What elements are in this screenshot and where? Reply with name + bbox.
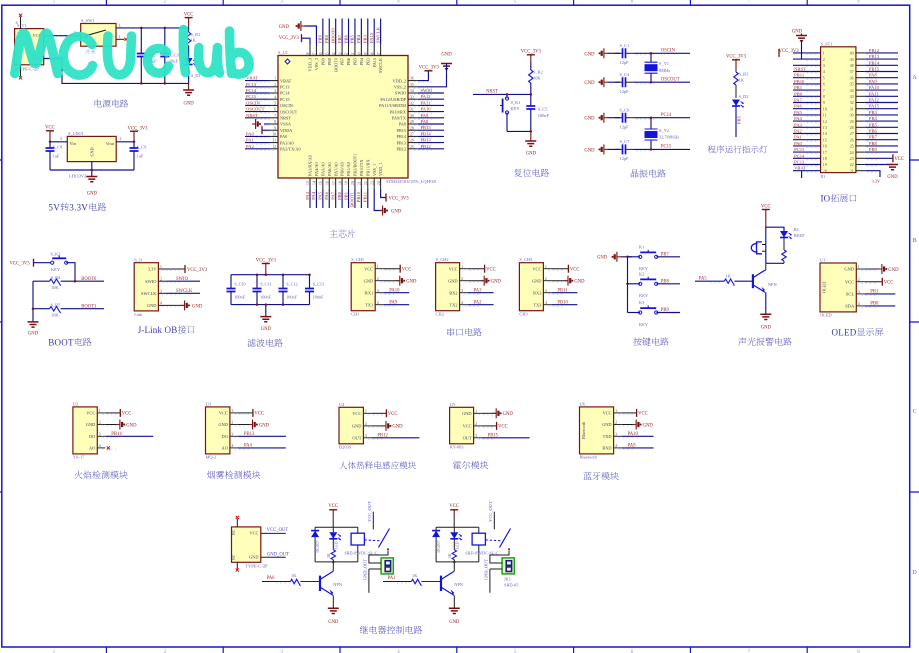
capacitor S_C1 12pF (608, 52, 621, 54)
svg-text:VCC_OUT: VCC_OUT (267, 528, 289, 533)
svg-text:S_SW1: S_SW1 (81, 18, 94, 23)
svg-text:CH1: CH1 (351, 311, 359, 316)
connector S_CH2 (436, 263, 460, 311)
svg-text:C: C (913, 409, 917, 415)
svg-text:38: 38 (370, 52, 374, 56)
base resistor 1K (411, 579, 421, 586)
svg-text:NRST: NRST (794, 67, 806, 72)
svg-text:7: 7 (823, 88, 825, 93)
svg-text:SWIO: SWIO (395, 91, 406, 96)
net label base input (383, 581, 411, 583)
svg-text:GND: GND (584, 117, 595, 122)
capacitor S_C9 1uF (133, 142, 135, 148)
svg-text:PA4/A0: PA4/A0 (314, 162, 319, 176)
svg-text:GND: GND (449, 620, 460, 625)
svg-text:OSCIN: OSCIN (661, 49, 676, 54)
svg-text:1K: 1K (191, 38, 197, 43)
svg-text:PB15: PB15 (869, 67, 880, 72)
ground port at VSSA pin 8 (264, 123, 269, 125)
svg-text:GND: GND (328, 620, 339, 625)
svg-text:PA12/USB/DP: PA12/USB/DP (380, 97, 406, 102)
svg-text:GND: GND (597, 255, 608, 260)
svg-text:VCC: VCC (122, 412, 132, 417)
svg-text:Vin: Vin (70, 141, 77, 146)
svg-text:U2: U2 (73, 401, 78, 406)
resistor S_R2 10K (530, 62, 532, 70)
svg-text:PC13: PC13 (246, 82, 257, 87)
svg-text:PB10: PB10 (356, 191, 361, 202)
svg-text:PA5: PA5 (318, 191, 323, 199)
resistor S_R1 1K (188, 28, 190, 32)
svg-text:32.768KHz: 32.768KHz (659, 135, 679, 140)
svg-text:12: 12 (823, 119, 827, 124)
svg-text:K1: K1 (639, 245, 644, 250)
svg-text:PB1: PB1 (870, 290, 879, 295)
wire left rail (32, 281, 34, 322)
caption key circuit (633, 337, 641, 345)
ground GND (328, 608, 339, 613)
svg-text:PA6: PA6 (794, 104, 802, 109)
svg-text:3: 3 (274, 89, 276, 93)
svg-text:KEY: KEY (51, 267, 61, 272)
svg-text:2: 2 (274, 83, 276, 87)
svg-text:PA11: PA11 (421, 100, 432, 105)
svg-text:30: 30 (410, 114, 414, 118)
svg-text:100nF: 100nF (313, 294, 324, 299)
svg-text:4: 4 (823, 69, 825, 74)
svg-text:PB1: PB1 (794, 85, 803, 90)
svg-text:PA0: PA0 (246, 131, 254, 136)
ground GND (760, 314, 771, 319)
svg-text:GND: GND (448, 278, 458, 283)
ground GND (530, 131, 532, 141)
connector S_CH3 (519, 263, 543, 311)
svg-text:GND: GND (844, 267, 855, 272)
svg-text:GND: GND (574, 280, 585, 285)
svg-text:VCC: VCC (184, 13, 194, 18)
svg-text:1N4007: 1N4007 (437, 540, 441, 553)
svg-text:PB13: PB13 (869, 54, 880, 59)
svg-text:SWIO: SWIO (145, 279, 156, 284)
svg-text:GND_OUT: GND_OUT (363, 559, 368, 580)
svg-text:15: 15 (319, 181, 323, 185)
svg-text:2: 2 (858, 278, 860, 282)
VCC port at header pin 23 (865, 157, 893, 159)
svg-text:NRST: NRST (280, 116, 291, 121)
svg-text:BOOT1: BOOT1 (350, 191, 355, 207)
svg-text:PB15: PB15 (421, 125, 432, 130)
svg-text:A: A (912, 75, 917, 81)
top pins 48-37 (309, 45, 311, 56)
svg-text:25: 25 (410, 145, 414, 149)
svg-text:O: O (824, 194, 831, 204)
svg-text:VCC_3V3: VCC_3V3 (279, 36, 300, 41)
svg-text:VCC: VCC (463, 424, 472, 429)
svg-text:13: 13 (823, 125, 827, 130)
svg-text:RX3: RX3 (533, 290, 542, 295)
svg-text:PA8: PA8 (399, 122, 406, 127)
svg-text:RX1: RX1 (365, 290, 373, 295)
svg-text:PB10: PB10 (557, 301, 568, 306)
border row ticks (0, 160, 919, 492)
svg-text:PA1: PA1 (388, 576, 397, 581)
wire at header pin 20 down (801, 171, 803, 178)
svg-text:PB8: PB8 (869, 141, 878, 146)
svg-text:1K: 1K (739, 77, 745, 82)
svg-text:PA4: PA4 (244, 444, 253, 449)
ground GND (265, 305, 267, 317)
capacitor S_C7 12pF (608, 148, 621, 150)
svg-text:VCC: VCC (86, 411, 95, 416)
svg-text:2: 2 (120, 137, 122, 141)
svg-text:PA15: PA15 (869, 104, 880, 109)
svg-text:31: 31 (410, 108, 414, 112)
svg-text:PB2/BOOT1: PB2/BOOT1 (353, 154, 358, 176)
svg-text:PB4: PB4 (356, 34, 361, 43)
svg-text:S_C12: S_C12 (286, 282, 297, 287)
svg-text:5: 5 (823, 75, 825, 80)
svg-text:3: 3 (99, 433, 101, 437)
svg-text:PB13: PB13 (244, 432, 255, 437)
svg-text:2: 2 (545, 277, 547, 281)
header right pins 40-21 (856, 52, 865, 54)
svg-text:VCC: VCC (449, 504, 459, 509)
svg-text:3: 3 (365, 434, 367, 438)
svg-text:PA7: PA7 (794, 98, 802, 103)
svg-text:PA15: PA15 (369, 32, 374, 43)
svg-text:PA15: PA15 (372, 58, 377, 67)
svg-text:OSCIN: OSCIN (246, 100, 260, 105)
svg-text:14: 14 (313, 181, 317, 185)
crystal S_Y1 8MHz (650, 53, 652, 62)
header left pins 1-20 (793, 52, 821, 54)
svg-text:PA9: PA9 (628, 444, 637, 449)
svg-text:29: 29 (410, 120, 414, 124)
svg-text:PC15: PC15 (661, 145, 672, 150)
svg-text:U3: U3 (206, 401, 212, 406)
svg-text:14: 14 (823, 131, 827, 136)
wire to net PB5 (735, 106, 737, 137)
relay contact blade (364, 539, 381, 542)
svg-text:VCC: VCC (45, 126, 55, 131)
svg-text:GND: GND (503, 412, 514, 417)
relay contact blade (485, 539, 502, 542)
svg-text:26: 26 (410, 139, 414, 143)
svg-text:25: 25 (850, 144, 854, 149)
capacitor S_C4 12pF (608, 81, 621, 83)
caption relay control circuit (360, 626, 368, 634)
svg-text:BOOT0: BOOT0 (333, 58, 338, 72)
svg-text:GND: GND (532, 278, 542, 283)
svg-text:GND: GND (184, 102, 195, 107)
svg-text:PB0: PB0 (794, 91, 803, 96)
svg-text:PB4: PB4 (359, 57, 364, 65)
svg-text:18: 18 (823, 156, 827, 161)
svg-text:D: D (850, 328, 857, 338)
svg-text:PB6: PB6 (346, 57, 351, 65)
svg-text:29: 29 (850, 119, 854, 124)
svg-text:PB6: PB6 (869, 129, 878, 134)
svg-text:PA1: PA1 (794, 135, 802, 140)
LED relay (450, 532, 458, 539)
ground GND (28, 322, 39, 327)
svg-text:PA12: PA12 (869, 98, 880, 103)
svg-text:PA2: PA2 (794, 129, 802, 134)
svg-text:PA9: PA9 (389, 301, 398, 306)
capacitor S_C13 100nF (309, 275, 311, 289)
wire to net PC15 (634, 148, 690, 150)
svg-text:VCC: VCC (486, 268, 496, 273)
svg-text:VCC_3V3: VCC_3V3 (10, 261, 31, 266)
svg-text:27: 27 (850, 131, 854, 136)
svg-text:S_ST1: S_ST1 (821, 41, 833, 46)
svg-text:46: 46 (319, 52, 323, 56)
svg-text:PB11: PB11 (363, 191, 368, 202)
svg-text:11: 11 (823, 113, 827, 118)
svg-text:VCC: VCC (388, 412, 398, 417)
svg-text:22: 22 (850, 162, 854, 167)
capacitor S_C5 100nF (530, 94, 532, 106)
caption serial circuit (447, 328, 454, 336)
svg-text:GND_OUT: GND_OUT (484, 559, 489, 580)
svg-text:10: 10 (823, 106, 827, 111)
svg-text:PA9: PA9 (421, 113, 429, 118)
svg-text:VCC: VCC (254, 412, 264, 417)
caption main chip (330, 230, 338, 238)
svg-text:NRST: NRST (486, 90, 498, 95)
svg-text:BOOT0: BOOT0 (81, 277, 97, 282)
buzzer B1 BEEP (757, 242, 763, 254)
connector S_CH1 (351, 263, 375, 311)
wire collector rail (765, 227, 767, 264)
svg-text:VCC: VCC (249, 531, 258, 536)
svg-text:SWCLK: SWCLK (141, 291, 157, 296)
connector U2 (73, 407, 97, 454)
svg-text:1: 1 (365, 410, 367, 414)
svg-text:PA10: PA10 (869, 85, 880, 90)
svg-text:S_Y1: S_Y1 (659, 61, 669, 66)
svg-text:PB5: PB5 (869, 122, 878, 127)
svg-text:TYPE-C-2P: TYPE-C-2P (245, 564, 268, 569)
svg-text:PC13: PC13 (280, 85, 290, 90)
svg-text:1: 1 (231, 409, 233, 413)
svg-text:1K: 1K (726, 274, 732, 279)
svg-text:CH3: CH3 (519, 311, 528, 316)
svg-text:GND: GND (491, 280, 502, 285)
net label base input (262, 581, 290, 583)
svg-text:PA3: PA3 (474, 289, 483, 294)
svg-text:VBAT: VBAT (280, 78, 292, 83)
svg-text:47: 47 (313, 52, 317, 56)
wire relay bottom rail (315, 561, 358, 563)
svg-text:PA8: PA8 (869, 73, 877, 78)
wire relay top rail (315, 526, 358, 528)
svg-text:PC15: PC15 (280, 97, 290, 102)
capacitor S_C8 1uF (49, 142, 51, 148)
svg-text:VCC: VCC (845, 279, 854, 284)
net label BOOT1 (75, 308, 104, 310)
svg-text:VCC: VCC (884, 281, 894, 286)
svg-text:VCC_3V3: VCC_3V3 (419, 66, 440, 71)
svg-text:PB7: PB7 (869, 135, 878, 140)
svg-text:PA5: PA5 (699, 277, 708, 282)
svg-text:PC15: PC15 (794, 147, 805, 152)
svg-text:VSS_3: VSS_3 (314, 58, 319, 70)
svg-text:36: 36 (410, 77, 414, 81)
svg-text:40: 40 (850, 51, 854, 56)
svg-text:1K: 1K (412, 573, 418, 578)
svg-text:S_J1: S_J1 (134, 257, 143, 262)
svg-text:NPN: NPN (454, 582, 464, 587)
svg-text:18: 18 (338, 181, 342, 185)
svg-text:100nF: 100nF (234, 294, 245, 299)
svg-text:B: B (913, 238, 917, 244)
svg-text:2: 2 (615, 421, 617, 425)
svg-text:17: 17 (332, 181, 336, 185)
svg-text:9: 9 (274, 126, 276, 130)
svg-text:PA11/USB/DM: PA11/USB/DM (379, 103, 406, 108)
svg-text:GND: GND (526, 152, 537, 157)
svg-text:3: 3 (858, 290, 860, 294)
svg-text:PA4: PA4 (311, 191, 316, 199)
svg-text:PB3: PB3 (869, 110, 878, 115)
relay coil SRD-05VDC-SL-C (357, 527, 359, 533)
svg-text:6: 6 (823, 82, 825, 87)
svg-text:26: 26 (850, 137, 854, 142)
connector U6 (580, 407, 614, 454)
transistor NPN relay driver (319, 576, 321, 591)
svg-text:VBAT: VBAT (794, 166, 806, 171)
svg-text:SDA: SDA (845, 304, 855, 309)
svg-text:S_K2: S_K2 (50, 252, 60, 257)
svg-text:S_C9: S_C9 (137, 145, 148, 150)
svg-text:NC: NC (232, 554, 236, 560)
svg-text:10K: 10K (51, 285, 59, 290)
wire bottom rail (231, 304, 310, 306)
wire branch to key (506, 94, 508, 96)
svg-text:6: 6 (274, 108, 276, 112)
svg-text:PB14: PB14 (869, 60, 880, 65)
svg-text:1: 1 (461, 265, 463, 269)
svg-text:GND: GND (584, 148, 595, 153)
svg-text:3: 3 (823, 63, 825, 68)
svg-text:IO: IO (821, 174, 826, 179)
svg-text:S_CH2: S_CH2 (436, 257, 449, 262)
svg-text:PB10: PB10 (794, 79, 805, 84)
svg-text:GND: GND (249, 555, 259, 560)
caption power circuit (95, 99, 102, 107)
wire emitter to ground (453, 596, 455, 609)
resistor R alarm (782, 250, 786, 261)
svg-text:PB11: PB11 (794, 73, 805, 78)
svg-text:PB12: PB12 (377, 434, 388, 439)
svg-text:S_K1: S_K1 (511, 100, 521, 105)
svg-text:GND: GND (364, 278, 374, 283)
svg-text:SWCLK: SWCLK (176, 289, 193, 294)
svg-text:20: 20 (351, 181, 355, 185)
svg-text:VCC: VCC (219, 411, 228, 416)
svg-text:PB8: PB8 (661, 279, 670, 284)
svg-text:1: 1 (160, 265, 162, 269)
wire ground rail (50, 169, 134, 171)
svg-text:PA5/A0: PA5/A0 (320, 162, 325, 176)
svg-text:SWIO: SWIO (421, 88, 433, 93)
svg-text:OLED: OLED (822, 282, 827, 294)
svg-text:4: 4 (377, 301, 379, 305)
svg-text:PA9/TX: PA9/TX (392, 116, 407, 121)
svg-text:11: 11 (272, 139, 276, 143)
ground pin4 (167, 304, 186, 306)
svg-text:V: V (81, 202, 88, 212)
power bar at VDDA pin 9 (262, 129, 269, 131)
svg-text:PA2: PA2 (246, 144, 254, 149)
wire VCC_OUT to contact (493, 512, 495, 530)
3.3V wire at header pin 21 (865, 171, 880, 177)
svg-text:GND: GND (888, 268, 899, 273)
svg-text:U6: U6 (580, 401, 586, 406)
svg-text:PB7: PB7 (337, 34, 342, 43)
svg-text:43: 43 (338, 52, 342, 56)
svg-text:S_C6: S_C6 (620, 108, 631, 113)
svg-text:2: 2 (99, 421, 101, 425)
svg-text:DO: DO (89, 434, 95, 439)
svg-text:100nF: 100nF (260, 294, 271, 299)
svg-text:GND: GND (279, 25, 290, 30)
svg-text:B: B (48, 337, 54, 347)
push button K2 KEY (628, 283, 641, 285)
svg-text:PA3/RX/A0: PA3/RX/A0 (308, 155, 313, 176)
svg-text:VCC: VCC (402, 268, 412, 273)
svg-text:PB4: PB4 (869, 116, 878, 121)
svg-text:VCC: VCC (532, 266, 541, 271)
capacitor S_C3 10uF (164, 28, 166, 54)
svg-text:JK1: JK1 (504, 577, 511, 582)
svg-text:5: 5 (274, 102, 276, 106)
wire to net PC14 (634, 117, 690, 119)
svg-text:1: 1 (475, 410, 477, 414)
svg-text:10K: 10K (533, 75, 541, 80)
svg-text:GND: GND (462, 411, 472, 416)
pin S_T1.6 no-connect (20, 17, 22, 29)
svg-text:30: 30 (850, 113, 854, 118)
svg-text:3: 3 (119, 24, 121, 28)
svg-text:GND: GND (90, 147, 95, 156)
svg-text:2: 2 (377, 277, 379, 281)
svg-text:100nF: 100nF (538, 113, 550, 118)
ground GND (188, 83, 190, 90)
wire relay top rail (436, 526, 479, 528)
border column ticks (106, 0, 807, 653)
switch S_SW1 (81, 24, 116, 47)
connector U5 (450, 407, 474, 444)
svg-text:GND_OUT: GND_OUT (267, 553, 289, 558)
svg-text:D203S: D203S (339, 444, 352, 449)
svg-text:PA12: PA12 (421, 94, 432, 99)
svg-text:S_R5: S_R5 (51, 303, 62, 308)
svg-text:S_C10: S_C10 (234, 282, 245, 287)
capacitor S_C6 12pF (608, 117, 621, 119)
svg-text:U5: U5 (450, 402, 456, 407)
net label PB9 (656, 312, 680, 314)
svg-text:S_C4: S_C4 (620, 72, 631, 77)
svg-text:PA7: PA7 (330, 191, 335, 199)
push button S_K2 KEY (34, 262, 52, 264)
svg-text:S_CH1: S_CH1 (351, 257, 364, 262)
VCC_3V3 port at VDD_2 (418, 71, 429, 81)
svg-text:45: 45 (325, 52, 329, 56)
capacitor S_C12 100nF (282, 275, 284, 289)
svg-text:PB5: PB5 (350, 34, 355, 43)
